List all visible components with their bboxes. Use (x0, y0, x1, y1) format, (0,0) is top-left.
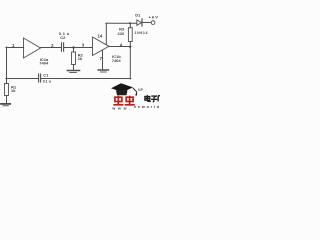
svg-text:eeworld: eeworld (134, 104, 160, 109)
svg-text:0.1 u: 0.1 u (43, 79, 51, 83)
svg-text:1k: 1k (78, 56, 83, 61)
svg-text:C1: C1 (43, 73, 49, 78)
svg-text:MP: MP (138, 88, 144, 92)
svg-text:7404: 7404 (39, 61, 49, 66)
svg-text:1k: 1k (11, 88, 16, 93)
svg-text:D1: D1 (135, 12, 141, 17)
svg-text:14: 14 (98, 33, 103, 38)
svg-text:+6V: +6V (148, 14, 158, 19)
svg-text:3: 3 (82, 42, 85, 47)
svg-text:220: 220 (118, 31, 125, 36)
svg-text:www.: www. (111, 106, 130, 110)
svg-text:1N914: 1N914 (135, 31, 148, 35)
svg-text:7404: 7404 (112, 58, 122, 63)
svg-text:C2: C2 (60, 35, 66, 40)
